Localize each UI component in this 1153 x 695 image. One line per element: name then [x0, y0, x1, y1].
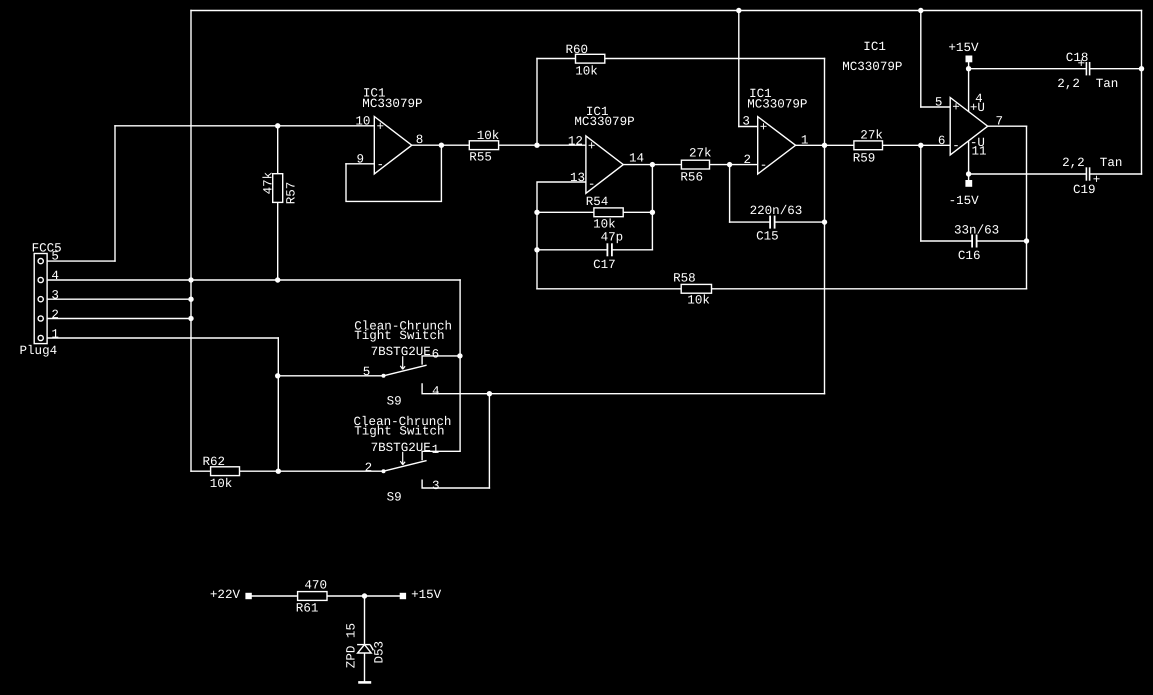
svg-text:S9: S9: [387, 491, 402, 505]
svg-text:3: 3: [51, 289, 59, 303]
svg-text:R62: R62: [203, 455, 226, 469]
wire R60 right drop: [824, 59, 826, 394]
wire R57 branch: [277, 126, 279, 280]
svg-text:Plug4: Plug4: [20, 344, 58, 358]
wire fcc pin1 row: [43, 337, 278, 339]
node +15V / C18 rail: [966, 66, 971, 71]
zener diode D53: [344, 623, 386, 668]
node C15 right: [822, 219, 827, 224]
svg-text:C17: C17: [593, 258, 616, 272]
node bus / pin4 row: [188, 277, 193, 282]
node pin10 / R57 top: [275, 123, 280, 128]
svg-text:R56: R56: [680, 170, 703, 184]
capacitor C16: [972, 235, 977, 248]
wire zener bottom: [364, 653, 366, 681]
svg-text:ZPD 15: ZPD 15: [344, 623, 358, 668]
wire pin5: [921, 106, 950, 108]
capacitor C19: [1086, 167, 1089, 180]
wire top rail: [191, 10, 1142, 12]
svg-text:R54: R54: [586, 195, 609, 209]
wire pin5 riser: [114, 126, 116, 261]
resistor R57: [261, 172, 298, 204]
wire pin7 drop: [1026, 126, 1028, 289]
node C17 left: [534, 247, 539, 252]
svg-text:10k: 10k: [593, 218, 616, 232]
wire C15 row right: [775, 221, 824, 223]
op-amp IC1d: [842, 40, 1003, 159]
svg-text:14: 14: [629, 152, 644, 166]
svg-text:2,2: 2,2: [1062, 156, 1085, 170]
node C16 right / pin7 drop: [1024, 238, 1029, 243]
power +22V terminal: [210, 588, 252, 602]
wire +22V row: [252, 595, 400, 597]
svg-text:+: +: [1078, 57, 1086, 71]
wire sw1 throw: [422, 356, 460, 364]
switch S9 gang a: [354, 320, 452, 409]
wire fcc pin3 row: [43, 298, 191, 300]
capacitor C18: [1086, 62, 1089, 75]
svg-text:10k: 10k: [687, 293, 710, 307]
svg-text:27k: 27k: [689, 147, 712, 161]
svg-text:C15: C15: [756, 229, 779, 243]
svg-text:+: +: [760, 120, 768, 134]
svg-text:3: 3: [742, 114, 750, 128]
svg-text:Tan: Tan: [1096, 77, 1119, 91]
svg-text:-: -: [952, 139, 960, 153]
svg-text:2: 2: [744, 153, 752, 167]
svg-text:10k: 10k: [575, 64, 598, 78]
node bus / pin2 row: [188, 316, 193, 321]
svg-text:R57: R57: [284, 182, 298, 205]
node top rail / pin3 drop: [736, 8, 741, 13]
wire fcc pin2 row: [43, 318, 191, 320]
node pin13 / R54 left: [534, 210, 539, 215]
svg-text:S9: S9: [387, 395, 402, 409]
svg-text:+22V: +22V: [210, 588, 241, 602]
wire pin10 input: [115, 125, 374, 127]
node sw1 pin4 / sw2 pin3 riser: [487, 391, 492, 396]
wire fcc pin4 row: [43, 279, 460, 281]
svg-text:MC33079P: MC33079P: [747, 97, 807, 111]
svg-text:C19: C19: [1073, 183, 1096, 197]
svg-text:MC33079P: MC33079P: [842, 60, 902, 74]
svg-text:470: 470: [304, 579, 327, 593]
svg-text:MC33079P: MC33079P: [574, 115, 634, 129]
wire C16 left drop: [920, 145, 922, 241]
svg-text:-: -: [760, 158, 768, 172]
ground: [358, 681, 371, 684]
svg-text:2,2: 2,2: [1057, 77, 1080, 91]
switch S9 gang b: [354, 415, 452, 505]
svg-text:220n/63: 220n/63: [750, 204, 803, 218]
wire C16 row left: [921, 240, 971, 242]
svg-text:R58: R58: [673, 272, 696, 286]
wire R58 rail: [537, 288, 1027, 290]
power -15V: [949, 180, 980, 208]
node sw bus / sw1 throw: [457, 353, 462, 358]
wire op2 out to op3 in: [623, 164, 757, 166]
svg-text:+: +: [952, 101, 960, 115]
op-amp IC1c: [742, 87, 808, 174]
svg-text:2: 2: [51, 308, 59, 322]
wire pin3 drop: [738, 11, 740, 127]
svg-text:4: 4: [432, 384, 440, 398]
connector FCC5 Plug4: [20, 242, 62, 359]
svg-text:+U: +U: [970, 101, 985, 115]
svg-text:Tight Switch: Tight Switch: [354, 425, 444, 439]
node pin1 drop / sw1 row: [275, 373, 280, 378]
svg-text:47k: 47k: [261, 172, 275, 195]
wire C17 row right: [613, 249, 653, 251]
svg-text:3: 3: [432, 479, 440, 493]
svg-text:+15V: +15V: [411, 588, 442, 602]
svg-text:7BSTG2UE: 7BSTG2UE: [371, 441, 431, 455]
svg-text:10: 10: [355, 114, 370, 128]
node op3 out / R60 right: [822, 143, 827, 148]
op-amp IC1a: [355, 86, 423, 173]
capacitor C17: [607, 243, 612, 256]
resistor R56: [680, 147, 711, 185]
node pin2 / C15 branch: [727, 162, 732, 167]
node pin1 drop / sw2 row: [276, 469, 281, 474]
wire switch bus drop: [459, 280, 461, 451]
wire pin3: [739, 126, 758, 128]
wire C19 rail right: [1090, 173, 1142, 175]
svg-text:Tan: Tan: [1100, 156, 1123, 170]
resistor R55: [469, 129, 499, 164]
wire left bus vertical: [190, 11, 192, 472]
svg-text:D53: D53: [373, 641, 387, 664]
wire -U supply: [968, 140, 970, 180]
wire +U supply: [968, 63, 970, 113]
power +15V terminal bottom: [400, 588, 442, 602]
wire op1 out to op2 in: [412, 144, 586, 146]
svg-text:47p: 47p: [601, 231, 624, 245]
svg-text:27k: 27k: [860, 129, 883, 143]
svg-text:1: 1: [432, 443, 440, 457]
node R55 out / R60 / pin12: [534, 143, 539, 148]
wire R54 row: [537, 211, 652, 213]
node R54 right: [650, 210, 655, 215]
node top rail / pin5 drop: [918, 8, 923, 13]
wire C15 drop: [729, 165, 731, 223]
wire sw2 pin3: [422, 480, 489, 488]
svg-text:7: 7: [996, 114, 1004, 128]
wire pin14 node drop: [651, 165, 653, 250]
svg-text:5: 5: [363, 365, 371, 379]
capacitor C15: [770, 216, 775, 229]
node: [439, 143, 444, 148]
wire pin7 out: [988, 125, 1027, 127]
wire R60 rail: [537, 58, 825, 60]
svg-text:+: +: [377, 120, 385, 134]
svg-text:6: 6: [938, 134, 946, 148]
svg-text:1: 1: [51, 327, 59, 341]
wire sw2 throw: [422, 451, 460, 459]
svg-text:8: 8: [416, 133, 424, 147]
resistor R60: [566, 43, 605, 79]
svg-text:2: 2: [365, 461, 373, 475]
svg-text:R59: R59: [853, 151, 876, 165]
wire fcc pin5 row: [43, 260, 115, 262]
node bus / pin3 row: [188, 297, 193, 302]
svg-text:11: 11: [972, 145, 987, 159]
svg-text:9: 9: [357, 152, 365, 166]
wire pin1 drop: [277, 338, 279, 471]
node R61 out / zener: [362, 593, 367, 598]
wire right edge drop: [1141, 11, 1143, 175]
node pin6 / C16 branch: [918, 143, 923, 148]
wire pin9: [346, 163, 374, 165]
node C18 right / edge drop: [1139, 66, 1144, 71]
resistor R62: [203, 455, 240, 491]
svg-text:C16: C16: [958, 249, 981, 263]
svg-text:R61: R61: [296, 602, 319, 616]
node -15V / C19 rail: [966, 171, 971, 176]
wire C19 rail left: [969, 173, 1086, 175]
svg-text:+: +: [588, 140, 596, 154]
svg-text:5: 5: [935, 95, 943, 109]
svg-text:MC33079P: MC33079P: [362, 97, 422, 111]
svg-text:Tight Switch: Tight Switch: [354, 329, 444, 343]
svg-text:+15V: +15V: [948, 41, 979, 55]
svg-text:IC1: IC1: [863, 40, 886, 54]
svg-text:R55: R55: [469, 150, 492, 164]
wire pin3 riser: [488, 394, 490, 488]
resistor R61: [296, 579, 327, 616]
node R57 bottom / pin4 row: [275, 277, 280, 282]
wire C15 row left: [730, 221, 770, 223]
wire sw2 contact row: [191, 470, 384, 472]
op-amp IC1b: [568, 105, 644, 193]
svg-text:-15V: -15V: [949, 194, 980, 208]
svg-text:1: 1: [801, 134, 809, 148]
svg-text:10k: 10k: [210, 477, 233, 491]
wire zener top: [364, 596, 366, 645]
wire C18 rail left: [969, 68, 1086, 70]
svg-text:-: -: [377, 158, 385, 172]
wire C18 rail right: [1090, 68, 1142, 70]
wire R60 left drop: [536, 59, 538, 146]
wire C16 row right: [977, 240, 1026, 242]
svg-text:12: 12: [568, 134, 583, 148]
svg-text:13: 13: [570, 171, 585, 185]
wire op1 feedback: [346, 145, 441, 201]
svg-text:R60: R60: [566, 43, 589, 57]
wire pin5 top drop: [920, 11, 922, 108]
svg-text:6: 6: [432, 347, 440, 361]
resistor R59: [853, 129, 883, 166]
wire sw1 pin4: [422, 384, 824, 394]
svg-text:5: 5: [51, 250, 59, 264]
wire sw1 contact row: [278, 375, 384, 377]
svg-text:7BSTG2UE: 7BSTG2UE: [371, 345, 431, 359]
svg-text:4: 4: [51, 269, 59, 283]
power +15V top: [948, 41, 979, 63]
svg-text:-: -: [588, 178, 596, 192]
resistor R54: [586, 195, 624, 231]
wire op3 out to op4 in: [796, 144, 951, 146]
svg-text:33n/63: 33n/63: [954, 224, 999, 238]
resistor R58: [673, 272, 711, 308]
wire pin13: [537, 182, 586, 289]
node pin14 / R54-C17 branch: [650, 162, 655, 167]
wire C17 row left: [537, 249, 607, 251]
svg-text:10k: 10k: [477, 129, 500, 143]
